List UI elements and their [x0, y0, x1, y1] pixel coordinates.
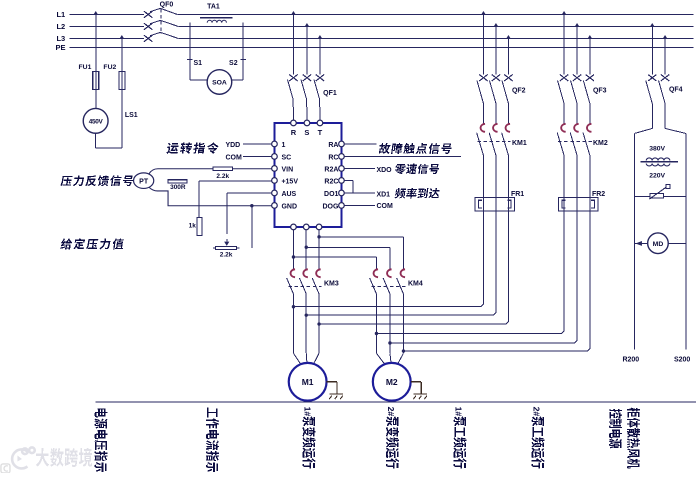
svg-text:AUS: AUS [281, 191, 296, 198]
watermark icon [12, 447, 35, 468]
wire feeder 5 [390, 211, 577, 343]
legend 工作电流指示 [206, 408, 219, 472]
wire L2 bus [69, 25, 144, 27]
svg-text:2.2k: 2.2k [220, 251, 233, 258]
inverter terminal VIN [272, 166, 278, 172]
wire PE bus [69, 46, 693, 48]
wire U3 drop [318, 230, 320, 270]
wire feeder 3 [319, 211, 508, 324]
svg-text:XDO: XDO [376, 167, 392, 174]
svg-text:#: # [532, 411, 542, 416]
wire U1 drop [292, 230, 294, 270]
svg-text:SOA: SOA [212, 80, 227, 87]
breaker QF3 pole 1 [560, 75, 568, 81]
wire RA [344, 143, 376, 145]
wire QF4 flare to rails [634, 128, 652, 133]
wire TA1 secondary left [189, 23, 191, 80]
svg-text:1: 1 [281, 142, 285, 149]
contactor KM3 pole 1 [291, 269, 296, 277]
ammeter SOA [207, 70, 232, 95]
wire KM1 pole 2 to FR1 [495, 197, 497, 211]
watermark corner icon [1, 464, 10, 473]
inverter terminal 1 [272, 141, 278, 147]
terminal S2 tick [240, 58, 246, 60]
ground (motor PE) [327, 381, 337, 383]
resistor 2.2k (VIN) [213, 167, 233, 171]
inverter terminal RC [339, 154, 345, 160]
legend 柜体散热风机 [627, 408, 640, 469]
wire QF3 pole 3 drop [588, 35, 592, 38]
inverter output terminal 2 [303, 224, 309, 230]
svg-text:FR2: FR2 [592, 191, 605, 198]
wire QF4 pole 2 drop [663, 35, 667, 38]
svg-text:#: # [454, 411, 464, 416]
wire L1 bus [69, 13, 144, 15]
wire feeder 4 [376, 211, 564, 334]
contactor KM1 pole 1 [481, 124, 486, 132]
svg-text:COM: COM [225, 155, 242, 162]
contactor KM3 pole 2 [303, 269, 308, 277]
contactor KM2 pole 2 [574, 124, 579, 132]
wire U2 drop [305, 230, 307, 270]
legend 电源电压指示 [94, 408, 107, 471]
contactor KM4 pole 3 [401, 269, 406, 277]
wire QF1 pole 1 drop [291, 11, 295, 14]
wire COM to SC [243, 155, 272, 157]
breaker QF1 pole 1 [289, 75, 297, 81]
svg-text:R2A: R2A [324, 167, 338, 174]
inverter output terminal 1 [291, 224, 297, 230]
svg-text:#: # [386, 411, 396, 416]
svg-text:380V: 380V [649, 145, 665, 152]
wire rail R200 [633, 133, 635, 349]
svg-text:1k: 1k [189, 223, 197, 230]
svg-text:KM2: KM2 [593, 140, 608, 147]
terminal S1 tick [187, 58, 193, 60]
svg-text:QF1: QF1 [323, 90, 337, 97]
ground (motor PE) [411, 381, 421, 383]
svg-text:KM3: KM3 [324, 280, 339, 287]
wire TA1 secondary right [242, 23, 244, 80]
wire KM3 pole 1 to M1 [292, 294, 294, 353]
wire KM2 pole 1 to FR2 [563, 197, 565, 211]
svg-text:VIN: VIN [281, 167, 293, 174]
wire YDD to pin 1 [243, 143, 272, 145]
svg-text:L2: L2 [56, 22, 65, 31]
wire branch to KM4 pole 2 [306, 246, 390, 248]
wire QF2 pole 3 drop [506, 35, 510, 38]
breaker QF2 pole 3 [504, 75, 512, 81]
wire KM3 pole 3 to M1 [318, 294, 320, 353]
inverter terminal DO1 [339, 190, 345, 196]
svg-text:KM4: KM4 [408, 280, 423, 287]
contactor KM4 pole 2 [387, 269, 392, 277]
transducer PT [134, 173, 154, 189]
contactor KM3 pole 3 [316, 269, 321, 277]
contactor KM1 pole 3 [506, 124, 511, 132]
svg-text:S1: S1 [193, 60, 202, 67]
inverter terminal R2C [339, 178, 345, 184]
wire branch to KM4 pole 1 [293, 256, 376, 258]
wire KM4 pole 2 to M2 [389, 294, 391, 353]
contactor KM4 pole 1 [374, 269, 379, 277]
voltmeter 450V [83, 108, 108, 133]
watermark text [36, 448, 49, 467]
label run-command 运转指令 [166, 142, 219, 154]
svg-text:M1: M1 [302, 377, 314, 387]
wire L3 bus [69, 37, 144, 39]
wire M2 entry funnel [376, 353, 384, 364]
svg-text:R2C: R2C [324, 179, 338, 186]
inverter terminal DOG [339, 203, 345, 209]
svg-text:L3: L3 [56, 34, 65, 43]
wire KM2 pole 3 to FR2 [589, 197, 591, 211]
pot wiper arrow [224, 242, 229, 246]
breaker QF0 pole 1 [144, 11, 152, 17]
svg-text:S2: S2 [229, 60, 238, 67]
wire 450V to LS1 [95, 133, 97, 148]
svg-text:TA1: TA1 [207, 4, 220, 11]
wire QF1 pole 3 drop [318, 35, 322, 38]
svg-text:MD: MD [653, 241, 664, 248]
svg-text:FR1: FR1 [511, 191, 524, 198]
svg-text:YDD: YDD [225, 142, 240, 149]
breaker QF1 pole 2 [303, 75, 311, 81]
wire KM3 pole 2 to M1 [305, 294, 307, 353]
wire QF2 pole 2 drop [494, 23, 498, 26]
label pressure-feedback 压力反馈信号 [60, 175, 134, 186]
wire QF2 pole 1 drop [481, 11, 485, 14]
contactor KM4 linkage [371, 285, 406, 287]
legend 2#泵工频运行 [531, 407, 544, 469]
breaker QF4 pole 2 [661, 75, 669, 81]
resistor 300R [168, 180, 187, 183]
contactor KM1 pole 2 [493, 124, 498, 132]
transformer TC secondary coil [646, 163, 670, 166]
wire feeder 6 [403, 211, 589, 351]
contactor KM2 pole 3 [587, 124, 592, 132]
wire branch to KM4 pole 3 [319, 236, 403, 238]
wire RC [344, 155, 460, 157]
svg-text:S200: S200 [674, 357, 690, 364]
svg-text:DOG: DOG [322, 204, 339, 211]
wire DOG [344, 204, 375, 206]
svg-text:#: # [303, 411, 313, 416]
svg-text:220V: 220V [649, 173, 665, 180]
inverter terminal SC [272, 154, 278, 160]
svg-text:PT: PT [139, 178, 149, 185]
breaker QF3 pole 3 [586, 75, 594, 81]
svg-text:RA: RA [328, 142, 338, 149]
contactor KM2 pole 1 [561, 124, 566, 132]
wire QF1 pole 2 drop [305, 23, 309, 26]
legend 1#泵工频运行 [453, 407, 466, 469]
wire FU1 drop [94, 11, 98, 14]
svg-text:300R: 300R [170, 184, 186, 191]
potentiometer 2.2k [213, 247, 216, 249]
inverter terminal GND [272, 203, 278, 209]
svg-text:FU2: FU2 [103, 64, 116, 71]
svg-text:XD1: XD1 [376, 192, 390, 199]
wire R2A [344, 167, 375, 169]
svg-text:FU1: FU1 [79, 64, 92, 71]
wire PT to VIN [149, 169, 272, 174]
transformer TC core [641, 161, 678, 163]
transformer TC primary coil [646, 158, 670, 161]
wire PT to GND [149, 187, 272, 206]
svg-text:M2: M2 [386, 377, 398, 387]
inverter terminal RA [339, 141, 345, 147]
inverter terminal +15V [272, 178, 278, 184]
inverter terminal R2A [339, 166, 345, 172]
transformer TA1 secondary coil [207, 20, 226, 22]
legend separator line [95, 401, 696, 403]
wire QF4 pole 1 drop [650, 23, 654, 26]
transformer TA1 core bar [200, 17, 233, 19]
legend 2#泵变频运行 [386, 407, 399, 469]
wire rail S200 [685, 133, 687, 349]
inverter terminal T [317, 120, 323, 126]
svg-text:T: T [318, 128, 323, 137]
wire M1 entry funnel [293, 353, 300, 364]
thermal relay FR2 [558, 197, 598, 211]
svg-text:R200: R200 [622, 357, 639, 364]
wire AUS to pot wiper [227, 192, 272, 194]
breaker QF0 pole 3 [144, 35, 152, 41]
thermal relay FR1 [475, 197, 515, 211]
svg-text:QF2: QF2 [512, 88, 526, 95]
wire KM4 pole 3 to M2 [402, 294, 404, 353]
label fault-contact 故障触点信号 [378, 143, 452, 154]
svg-text:LS1: LS1 [125, 112, 138, 119]
breaker QF1 pole 3 [316, 75, 324, 81]
fuse-switch on 220V line [634, 195, 686, 197]
wire QF3 pole 2 drop [575, 23, 579, 26]
inverter terminal R [291, 120, 297, 126]
wire KM1 pole 1 to FR1 [482, 197, 484, 211]
breaker QF2 pole 1 [479, 75, 487, 81]
label set-pressure 给定压力值 [60, 238, 124, 249]
breaker QF2 pole 2 [492, 75, 500, 81]
svg-text:QF4: QF4 [669, 86, 683, 93]
svg-text:QF3: QF3 [593, 88, 607, 95]
fan motor MD [634, 242, 647, 244]
svg-text:COM: COM [376, 203, 393, 210]
svg-text:QF0: QF0 [160, 2, 174, 9]
legend 1#泵变频运行 [302, 407, 315, 469]
motor M2 [373, 363, 411, 401]
wire QF3 pole 1 drop [562, 11, 566, 14]
svg-text:S: S [304, 128, 309, 137]
wire DO1 [344, 192, 375, 194]
wire FU2 drop [120, 35, 124, 38]
breaker QF0 pole 2 [144, 23, 152, 29]
svg-text:DO1: DO1 [324, 191, 339, 198]
svg-text:SC: SC [281, 155, 291, 162]
svg-text:450V: 450V [89, 118, 104, 125]
contactor KM2 linkage [558, 140, 592, 142]
inverter terminal AUS [272, 190, 278, 196]
inverter terminal S [304, 120, 310, 126]
svg-text:2.2k: 2.2k [216, 173, 229, 180]
breaker QF4 pole 1 [648, 75, 656, 81]
contactor KM3 linkage [288, 285, 321, 287]
wire KM4 pole 1 to M2 [375, 294, 377, 353]
svg-text:L1: L1 [56, 10, 65, 19]
resistor 1k [197, 217, 202, 235]
wire KM2 pole 2 to FR2 [576, 197, 578, 211]
wire R2C bridge [344, 179, 352, 181]
legend 控制电源 [609, 409, 622, 448]
fuse FU1 [93, 71, 99, 89]
svg-text:RC: RC [328, 155, 338, 162]
inverter output terminal 3 [316, 224, 322, 230]
svg-text:R: R [291, 128, 297, 137]
wire GND stub [250, 204, 253, 207]
fuse FU2 [119, 71, 125, 89]
wire feeder 1 [293, 211, 483, 307]
contactor KM1 linkage [477, 140, 510, 142]
svg-text:PE: PE [55, 43, 65, 52]
svg-text:KM1: KM1 [512, 140, 527, 147]
wire +15V [199, 180, 272, 182]
breaker QF0 linkage [160, 9, 162, 34]
wire KM1 pole 3 to FR1 [507, 197, 509, 211]
wire feeder 2 [306, 211, 496, 315]
svg-text:GND: GND [281, 204, 297, 211]
svg-text:+15V: +15V [281, 179, 298, 186]
inverter U1 body [274, 123, 341, 227]
motor M1 [289, 363, 327, 401]
breaker QF3 pole 2 [573, 75, 581, 81]
